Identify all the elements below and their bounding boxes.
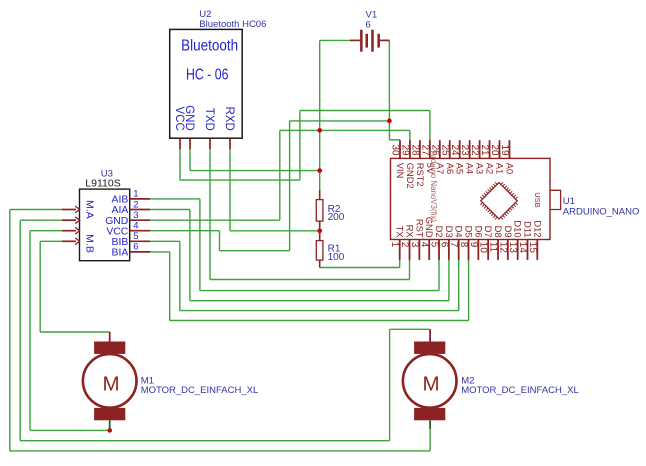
wire M.A2 bottom rail [20,440,389,442]
motor M2 [403,329,457,429]
svg-text:BIB: BIB [112,237,129,248]
U1 top pin names [395,163,514,189]
U3 left pin stubs with arrows [62,206,80,245]
svg-text:RST2: RST2 [415,163,425,187]
op U1 arduino body [391,158,551,239]
wire AIB riser [199,199,201,291]
wire M.A1 bottom rail [10,450,430,452]
svg-text:11: 11 [488,242,499,253]
wire BIB riser [179,241,181,310]
svg-text:3: 3 [409,242,420,248]
svg-text:GND: GND [183,105,195,131]
wire M.A2 down [19,220,21,441]
wire D3 drop [448,260,450,301]
wire BIB horizontal [150,240,180,242]
wire HC06 RXD drop [229,149,231,231]
U3 pin names [105,195,129,259]
svg-text:30: 30 [390,144,401,156]
wire D3 horizontal [190,300,449,302]
wire M.A1 down [9,210,11,451]
svg-text:A6: A6 [445,163,455,174]
svg-text:1: 1 [389,242,400,248]
svg-text:A2: A2 [485,163,495,174]
wire R1 bottom horizontal [320,267,400,269]
svg-text:A5: A5 [455,163,465,174]
svg-text:6: 6 [133,242,138,253]
U2 pin stubs [180,138,230,149]
svg-text:Bluetooth: Bluetooth [181,37,238,54]
wire M2 top riser [389,329,391,440]
svg-text:100: 100 [328,252,345,263]
resistor R2 [316,190,323,229]
wire GND riser [279,130,281,220]
svg-text:MOTOR_DC_EINFACH_XL: MOTOR_DC_EINFACH_XL [141,385,259,396]
svg-text:TX: TX [395,226,406,239]
svg-text:4: 4 [133,221,138,232]
wire M.B2 top horizontal [40,331,110,333]
wire GND rail to GND2 [280,129,410,131]
wire battery+ jog to pin30 [389,139,400,141]
U1 bottom pin names [395,217,544,239]
wire L9110S VCC horizontal [150,230,220,232]
svg-text:D3: D3 [444,226,455,238]
bluetooth module U2 body [170,29,243,138]
svg-text:15: 15 [527,242,538,254]
svg-text:29: 29 [399,144,410,156]
wire TXD to RX horizontal [210,279,410,281]
battery V1 [350,30,389,52]
U1 top pin numbers 30-19 [390,144,510,156]
wire GND2 drop [409,130,411,140]
svg-text:8: 8 [458,242,469,248]
U2 pin labels VCC GND TXD RXD [173,105,235,131]
svg-text:7: 7 [448,242,459,248]
wire HC06 VCC drop [179,149,181,180]
U1 usb connector [550,190,560,209]
wire D2 horizontal [200,290,439,292]
svg-text:AIA: AIA [112,205,129,216]
wire M.B1 bottom horizontal [30,429,110,431]
svg-text:20: 20 [489,144,500,156]
svg-text:3: 3 [133,210,138,221]
wire HC06 GND drop [189,149,191,170]
svg-text:24: 24 [449,144,460,156]
wire VIN rail horizontal [290,120,390,122]
svg-text:RX: RX [405,225,416,239]
svg-text:5: 5 [429,242,440,248]
wire VIN bottom horizontal [220,250,290,252]
resistor R1 [316,233,323,268]
svg-text:ARDUINO_NANO: ARDUINO_NANO [563,206,640,217]
svg-text:D7: D7 [483,226,494,238]
svg-text:10: 10 [478,242,489,254]
svg-text:9: 9 [468,242,479,248]
wire L9110S GND horizontal [150,219,280,221]
wire BIA horizontal [150,251,170,253]
svg-text:D2: D2 [434,226,445,238]
wire 5V drop to pin27 [429,111,431,141]
U1 bottom pin stubs [400,240,538,260]
svg-text:USB: USB [533,192,542,207]
wire HC06 VCC horizontal [180,179,300,181]
svg-text:6: 6 [438,242,449,248]
wire D4 horizontal [180,310,459,312]
wire battery- down to R2 [319,40,321,190]
svg-text:25: 25 [439,144,450,156]
junction VIN rail / battery+ [387,119,392,124]
svg-text:5: 5 [133,231,138,242]
svg-text:M.A: M.A [83,200,95,219]
wire D5 drop [468,260,470,321]
svg-text:VIN: VIN [395,163,405,179]
svg-text:A4: A4 [465,163,475,174]
svg-text:L9110S: L9110S [85,177,120,189]
wire HC06 TXD drop [209,149,211,279]
wire D2 drop [438,260,440,291]
wire RX riser [409,260,411,280]
junction M1 bottom node [107,428,112,433]
wire 5V riser [299,111,301,181]
wire AIA riser [189,210,191,301]
wire VIN up to L9110S VCC row [219,231,221,251]
svg-text:A0: A0 [504,163,514,174]
wire BIA riser [169,252,171,321]
svg-text:M.B: M.B [83,234,95,253]
wire D4 drop [458,260,460,311]
wire M.A2 horizontal [20,219,62,221]
svg-text:RST: RST [414,219,425,238]
U1 chip symbol [481,183,517,219]
wire M.B1 down [29,231,31,431]
wire HC06 RXD horizontal [230,230,319,232]
svg-text:A3: A3 [475,163,485,174]
svg-text:D10: D10 [513,220,524,237]
svg-text:200: 200 [328,212,345,223]
wire TX riser [399,260,401,268]
svg-text:MOTOR_DC_EINFACH_XL: MOTOR_DC_EINFACH_XL [461,385,579,396]
svg-text:U1: U1 [563,196,575,207]
svg-text:AIB: AIB [112,195,129,206]
wire 5V horizontal [300,110,430,112]
svg-text:27: 27 [419,144,430,156]
svg-text:D4: D4 [454,226,465,238]
U3 right pin stubs [130,199,150,252]
svg-text:13: 13 [507,242,518,254]
svg-text:14: 14 [517,242,528,254]
wire AIB horizontal [150,198,200,200]
svg-text:BIA: BIA [112,248,129,259]
svg-text:4: 4 [419,242,430,248]
wire AIA horizontal [150,209,190,211]
svg-text:19: 19 [499,144,510,156]
svg-text:23: 23 [459,144,470,156]
svg-text:6: 6 [366,20,371,31]
U1 top pin stubs [400,140,509,158]
svg-text:D9: D9 [503,226,514,238]
svg-text:2: 2 [399,242,410,248]
wire M2 bottom riser [429,429,431,451]
wire M.A1 horizontal [10,209,62,211]
wire battery+ to VIN down [388,40,390,139]
svg-text:Bluetooth HC06: Bluetooth HC06 [199,19,266,30]
junction HC06 GND / battery- [317,168,322,173]
wire M.B2 down [39,241,41,332]
svg-text:GND2: GND2 [405,163,415,189]
U3 pin numbers 1-6 [133,189,138,253]
svg-text:1: 1 [133,189,138,200]
svg-text:Arduino NanoV3(fix): Arduino NanoV3(fix) [429,151,438,222]
U1 bottom pin numbers 1-15 [389,242,538,254]
svg-text:RXD: RXD [223,107,235,131]
wire D5 horizontal [170,320,469,322]
junction GND rail / battery- [317,128,322,133]
junction R2-R1 / RXD node [317,228,322,233]
motor M1 [83,332,137,430]
svg-text:HC - 06: HC - 06 [186,67,229,84]
svg-text:D11: D11 [522,221,533,238]
svg-text:VCC: VCC [106,226,128,237]
wire HC06 GND horizontal [190,170,320,172]
svg-text:M: M [422,373,439,396]
wire M2 top horizontal [390,328,430,330]
svg-text:28: 28 [409,144,420,156]
wire battery- horizontal [320,39,350,41]
svg-text:21: 21 [479,144,490,156]
svg-text:12: 12 [497,242,508,254]
svg-text:D8: D8 [493,226,504,238]
wire M.B2 horizontal [40,240,62,242]
svg-text:M: M [102,373,119,396]
driver U3 body [80,189,130,261]
svg-text:D5: D5 [464,226,475,238]
wire VIN riser [289,121,291,251]
svg-text:GND: GND [105,216,128,227]
svg-text:D12: D12 [532,220,543,237]
svg-text:A1: A1 [495,163,505,174]
svg-text:TXD: TXD [203,108,215,131]
wire M.B1 horizontal [30,230,62,232]
svg-text:22: 22 [469,144,480,156]
svg-text:2: 2 [133,199,138,210]
svg-text:D6: D6 [473,226,484,238]
